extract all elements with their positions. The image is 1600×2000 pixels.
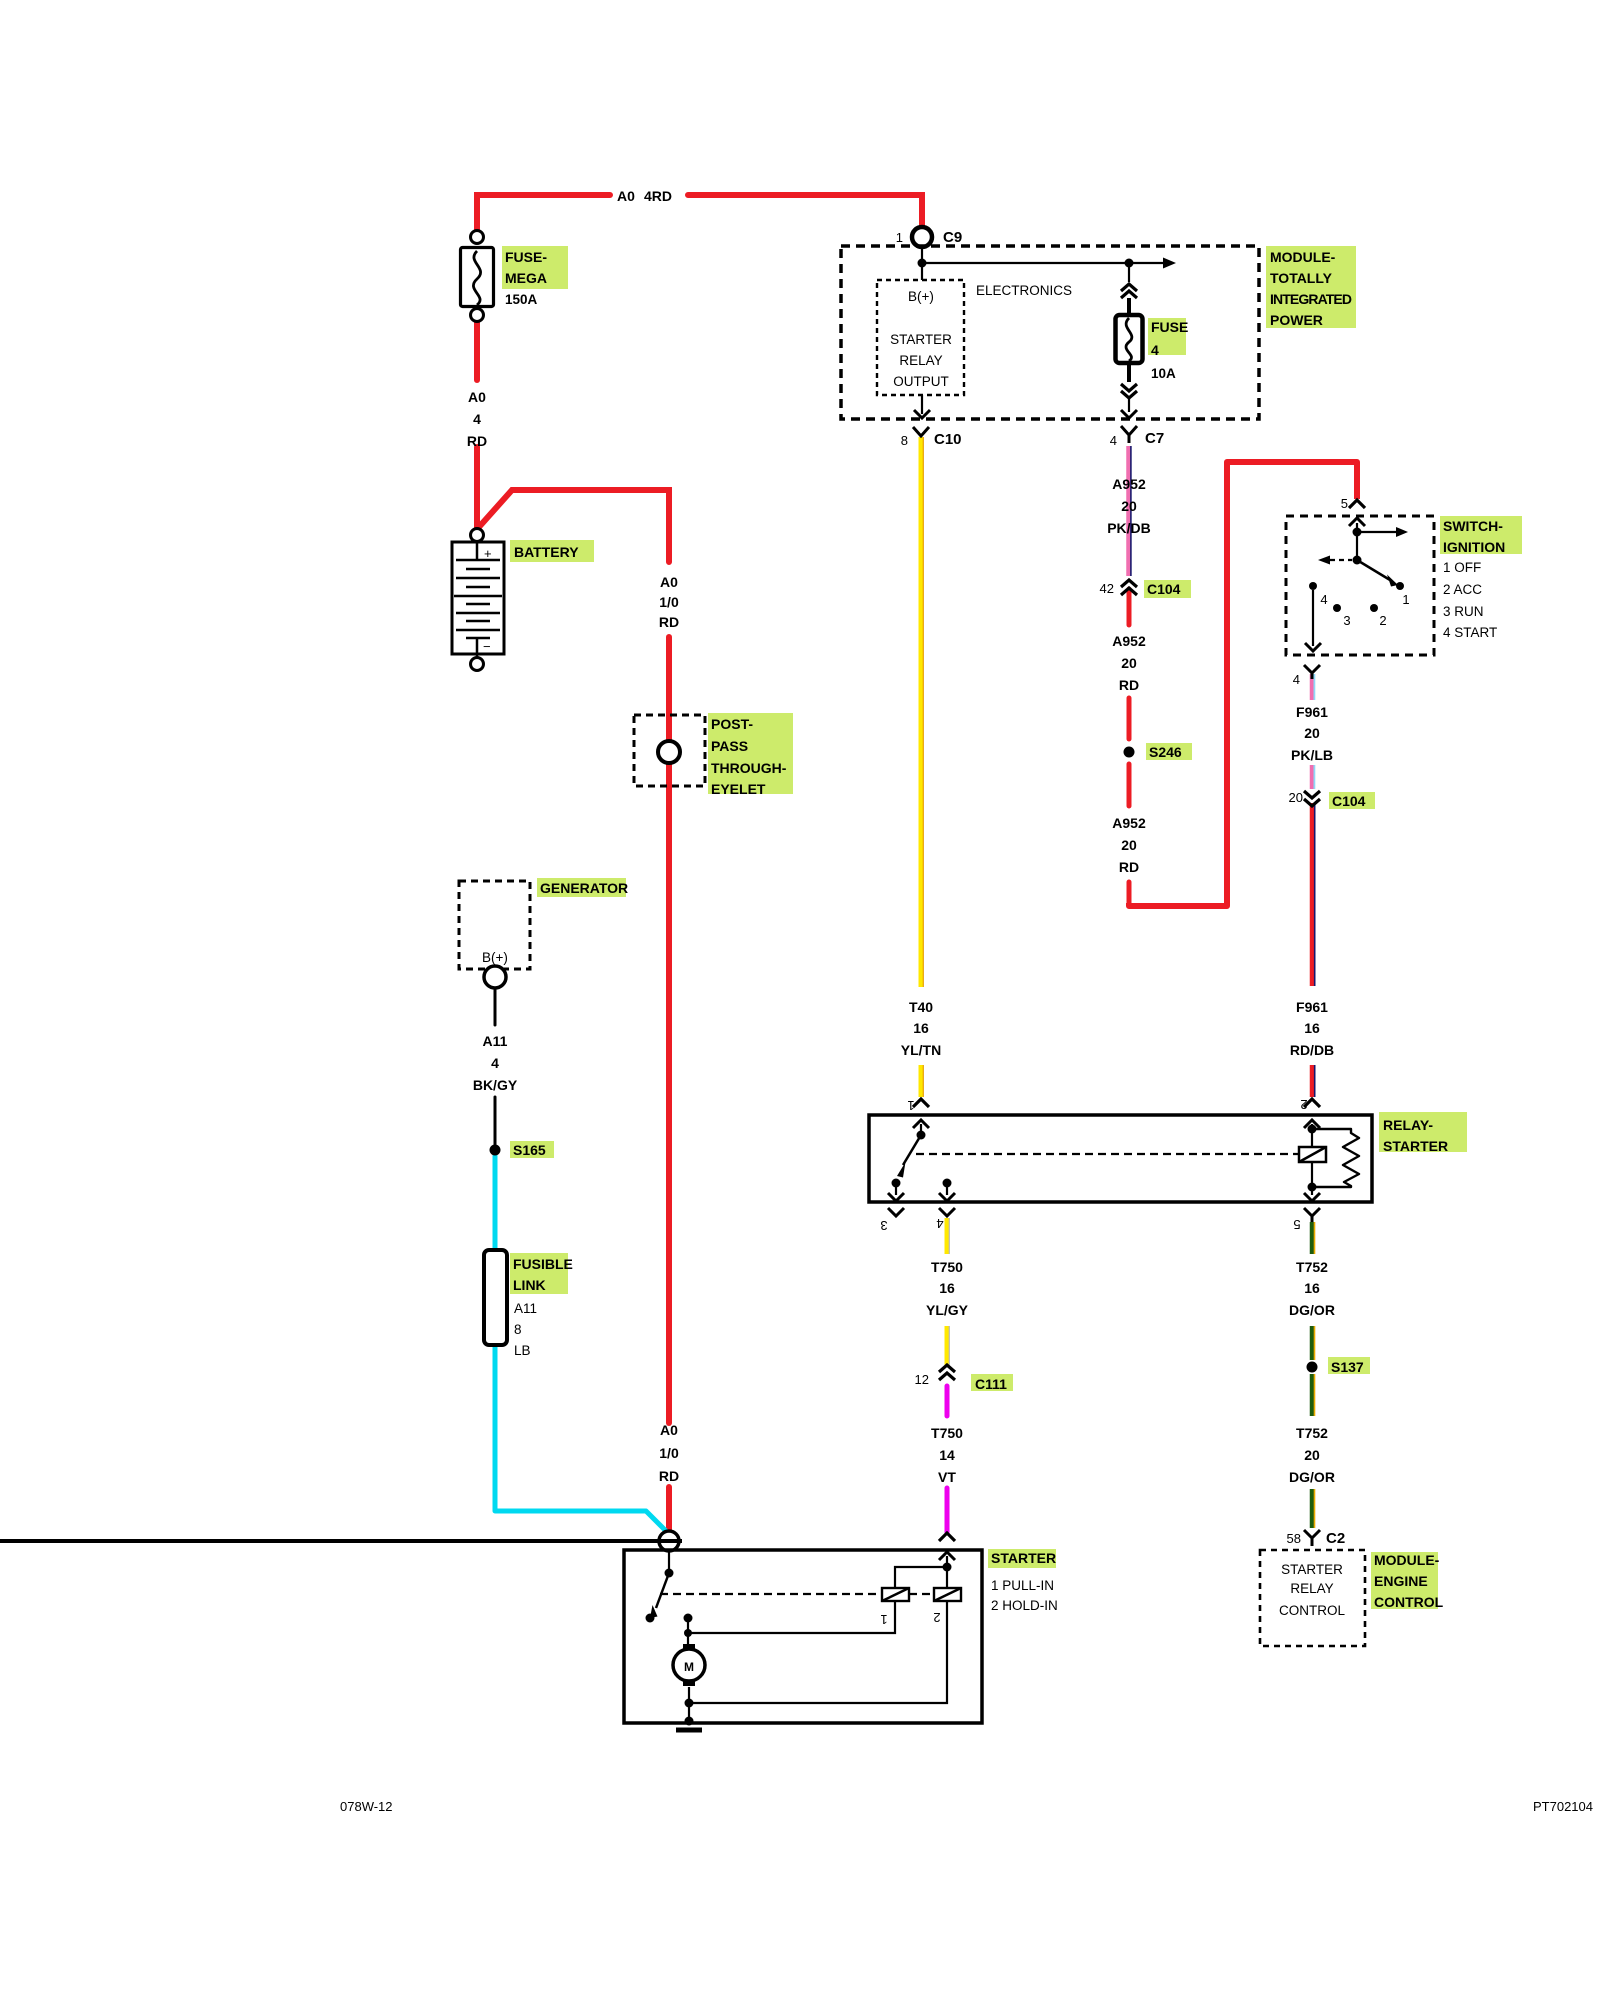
svg-text:14: 14 <box>939 1447 955 1463</box>
svg-text:1/0: 1/0 <box>659 1445 679 1461</box>
svg-text:3 RUN: 3 RUN <box>1443 604 1484 619</box>
svg-text:2: 2 <box>1300 1097 1307 1112</box>
svg-text:STARTER: STARTER <box>1281 1562 1343 1577</box>
svg-text:A0: A0 <box>660 1422 678 1438</box>
svg-text:A0: A0 <box>617 188 635 204</box>
svg-text:PK/LB: PK/LB <box>1291 747 1333 763</box>
svg-text:C104: C104 <box>1332 793 1366 809</box>
svg-text:20: 20 <box>1304 1447 1320 1463</box>
svg-text:RD: RD <box>659 614 679 630</box>
svg-text:IGNITION: IGNITION <box>1443 539 1505 555</box>
svg-text:YL/GY: YL/GY <box>926 1302 969 1318</box>
svg-text:A0: A0 <box>660 574 678 590</box>
svg-text:POST-: POST- <box>711 716 753 732</box>
svg-text:S137: S137 <box>1331 1359 1364 1375</box>
svg-text:RELAY: RELAY <box>1290 1581 1333 1596</box>
svg-text:T750: T750 <box>931 1425 963 1441</box>
svg-text:8: 8 <box>514 1322 522 1337</box>
svg-text:F961: F961 <box>1296 999 1328 1015</box>
svg-text:4: 4 <box>1151 342 1159 358</box>
svg-text:16: 16 <box>913 1020 929 1036</box>
svg-text:16: 16 <box>1304 1280 1320 1296</box>
svg-text:1 PULL-IN: 1 PULL-IN <box>991 1578 1054 1593</box>
svg-text:B(+): B(+) <box>908 289 934 304</box>
svg-text:T40: T40 <box>909 999 933 1015</box>
svg-text:RD: RD <box>1119 677 1139 693</box>
svg-text:S246: S246 <box>1149 744 1182 760</box>
svg-text:LB: LB <box>514 1343 531 1358</box>
svg-text:42: 42 <box>1100 581 1114 596</box>
svg-text:CONTROL: CONTROL <box>1374 1594 1444 1610</box>
svg-text:STARTER: STARTER <box>890 332 952 347</box>
svg-text:A11: A11 <box>514 1301 537 1316</box>
svg-text:1: 1 <box>896 230 903 245</box>
svg-text:RD: RD <box>1119 859 1139 875</box>
svg-text:C111: C111 <box>975 1376 1007 1392</box>
svg-text:150A: 150A <box>505 292 538 307</box>
svg-text:EYELET: EYELET <box>711 781 766 797</box>
svg-text:GENERATOR: GENERATOR <box>540 880 628 896</box>
svg-text:8: 8 <box>901 433 908 448</box>
svg-text:MODULE-: MODULE- <box>1270 249 1336 265</box>
svg-text:FUSE-: FUSE- <box>505 249 547 265</box>
svg-text:2 ACC: 2 ACC <box>1443 582 1482 597</box>
svg-text:A952: A952 <box>1112 815 1146 831</box>
svg-text:DG/OR: DG/OR <box>1289 1302 1335 1318</box>
svg-text:1 OFF: 1 OFF <box>1443 560 1481 575</box>
svg-text:1/0: 1/0 <box>659 594 679 610</box>
svg-text:T752: T752 <box>1296 1259 1328 1275</box>
svg-text:4: 4 <box>1293 672 1300 687</box>
svg-text:−: − <box>483 639 491 654</box>
svg-text:A952: A952 <box>1112 476 1146 492</box>
svg-text:TOTALLY: TOTALLY <box>1270 270 1333 286</box>
svg-text:2 HOLD-IN: 2 HOLD-IN <box>991 1598 1058 1613</box>
svg-text:078W-12: 078W-12 <box>340 1799 393 1814</box>
svg-text:THROUGH-: THROUGH- <box>711 760 787 776</box>
svg-text:RELAY-: RELAY- <box>1383 1117 1433 1133</box>
svg-text:C7: C7 <box>1145 430 1164 447</box>
svg-text:20: 20 <box>1304 725 1320 741</box>
svg-text:1: 1 <box>1402 592 1409 607</box>
svg-text:C9: C9 <box>943 229 962 246</box>
svg-text:4: 4 <box>473 411 481 427</box>
svg-text:A11: A11 <box>483 1033 508 1049</box>
svg-text:20: 20 <box>1121 837 1137 853</box>
svg-text:M: M <box>684 1660 694 1674</box>
svg-text:MEGA: MEGA <box>505 270 547 286</box>
svg-text:STARTER: STARTER <box>1383 1138 1448 1154</box>
svg-text:4 START: 4 START <box>1443 625 1497 640</box>
svg-text:4: 4 <box>491 1055 499 1071</box>
svg-text:LINK: LINK <box>513 1277 546 1293</box>
svg-text:12: 12 <box>915 1372 929 1387</box>
svg-text:3: 3 <box>880 1218 887 1233</box>
svg-text:1: 1 <box>907 1098 914 1113</box>
svg-text:STARTER: STARTER <box>991 1550 1056 1566</box>
svg-text:C104: C104 <box>1147 581 1181 597</box>
svg-text:PASS: PASS <box>711 738 748 754</box>
svg-text:F961: F961 <box>1296 704 1328 720</box>
svg-text:4RD: 4RD <box>644 188 672 204</box>
svg-text:B(+): B(+) <box>482 950 508 965</box>
svg-text:16: 16 <box>939 1280 955 1296</box>
svg-text:RD/DB: RD/DB <box>1290 1042 1334 1058</box>
svg-text:4: 4 <box>1110 433 1117 448</box>
svg-text:MODULE-: MODULE- <box>1374 1552 1440 1568</box>
svg-text:RD: RD <box>659 1468 679 1484</box>
svg-text:A0: A0 <box>468 389 486 405</box>
svg-text:C2: C2 <box>1326 1530 1345 1547</box>
svg-text:VT: VT <box>938 1469 956 1485</box>
svg-text:C10: C10 <box>934 431 962 448</box>
svg-text:T750: T750 <box>931 1259 963 1275</box>
svg-text:10A: 10A <box>1151 366 1176 381</box>
svg-text:SWITCH-: SWITCH- <box>1443 518 1503 534</box>
svg-text:OUTPUT: OUTPUT <box>893 374 949 389</box>
svg-text:3: 3 <box>1343 613 1350 628</box>
svg-text:POWER: POWER <box>1270 312 1323 328</box>
svg-text:FUSIBLE: FUSIBLE <box>513 1256 573 1272</box>
svg-text:2: 2 <box>1379 613 1386 628</box>
svg-text:RD: RD <box>467 433 487 449</box>
svg-text:1: 1 <box>880 1612 887 1627</box>
svg-text:INTEGRATED: INTEGRATED <box>1270 291 1352 307</box>
svg-text:16: 16 <box>1304 1020 1320 1036</box>
svg-text:ENGINE: ENGINE <box>1374 1573 1428 1589</box>
svg-text:FUSE: FUSE <box>1151 319 1188 335</box>
svg-text:A952: A952 <box>1112 633 1146 649</box>
svg-text:S165: S165 <box>513 1142 546 1158</box>
svg-text:ELECTRONICS: ELECTRONICS <box>976 283 1072 298</box>
svg-text:5: 5 <box>1293 1217 1300 1232</box>
svg-text:T752: T752 <box>1296 1425 1328 1441</box>
svg-text:20: 20 <box>1289 790 1303 805</box>
svg-text:BATTERY: BATTERY <box>514 544 579 560</box>
svg-text:20: 20 <box>1121 498 1137 514</box>
svg-text:RELAY: RELAY <box>899 353 942 368</box>
svg-text:4: 4 <box>1320 592 1327 607</box>
svg-text:5: 5 <box>1341 496 1348 511</box>
svg-text:YL/TN: YL/TN <box>901 1042 941 1058</box>
svg-text:BK/GY: BK/GY <box>473 1077 518 1093</box>
svg-text:PK/DB: PK/DB <box>1107 520 1151 536</box>
svg-text:+: + <box>484 546 492 561</box>
svg-text:CONTROL: CONTROL <box>1279 1603 1345 1618</box>
svg-text:PT702104: PT702104 <box>1533 1799 1593 1814</box>
svg-text:20: 20 <box>1121 655 1137 671</box>
svg-text:4: 4 <box>936 1216 943 1231</box>
svg-text:2: 2 <box>933 1610 940 1625</box>
svg-text:58: 58 <box>1287 1531 1301 1546</box>
svg-text:DG/OR: DG/OR <box>1289 1469 1335 1485</box>
